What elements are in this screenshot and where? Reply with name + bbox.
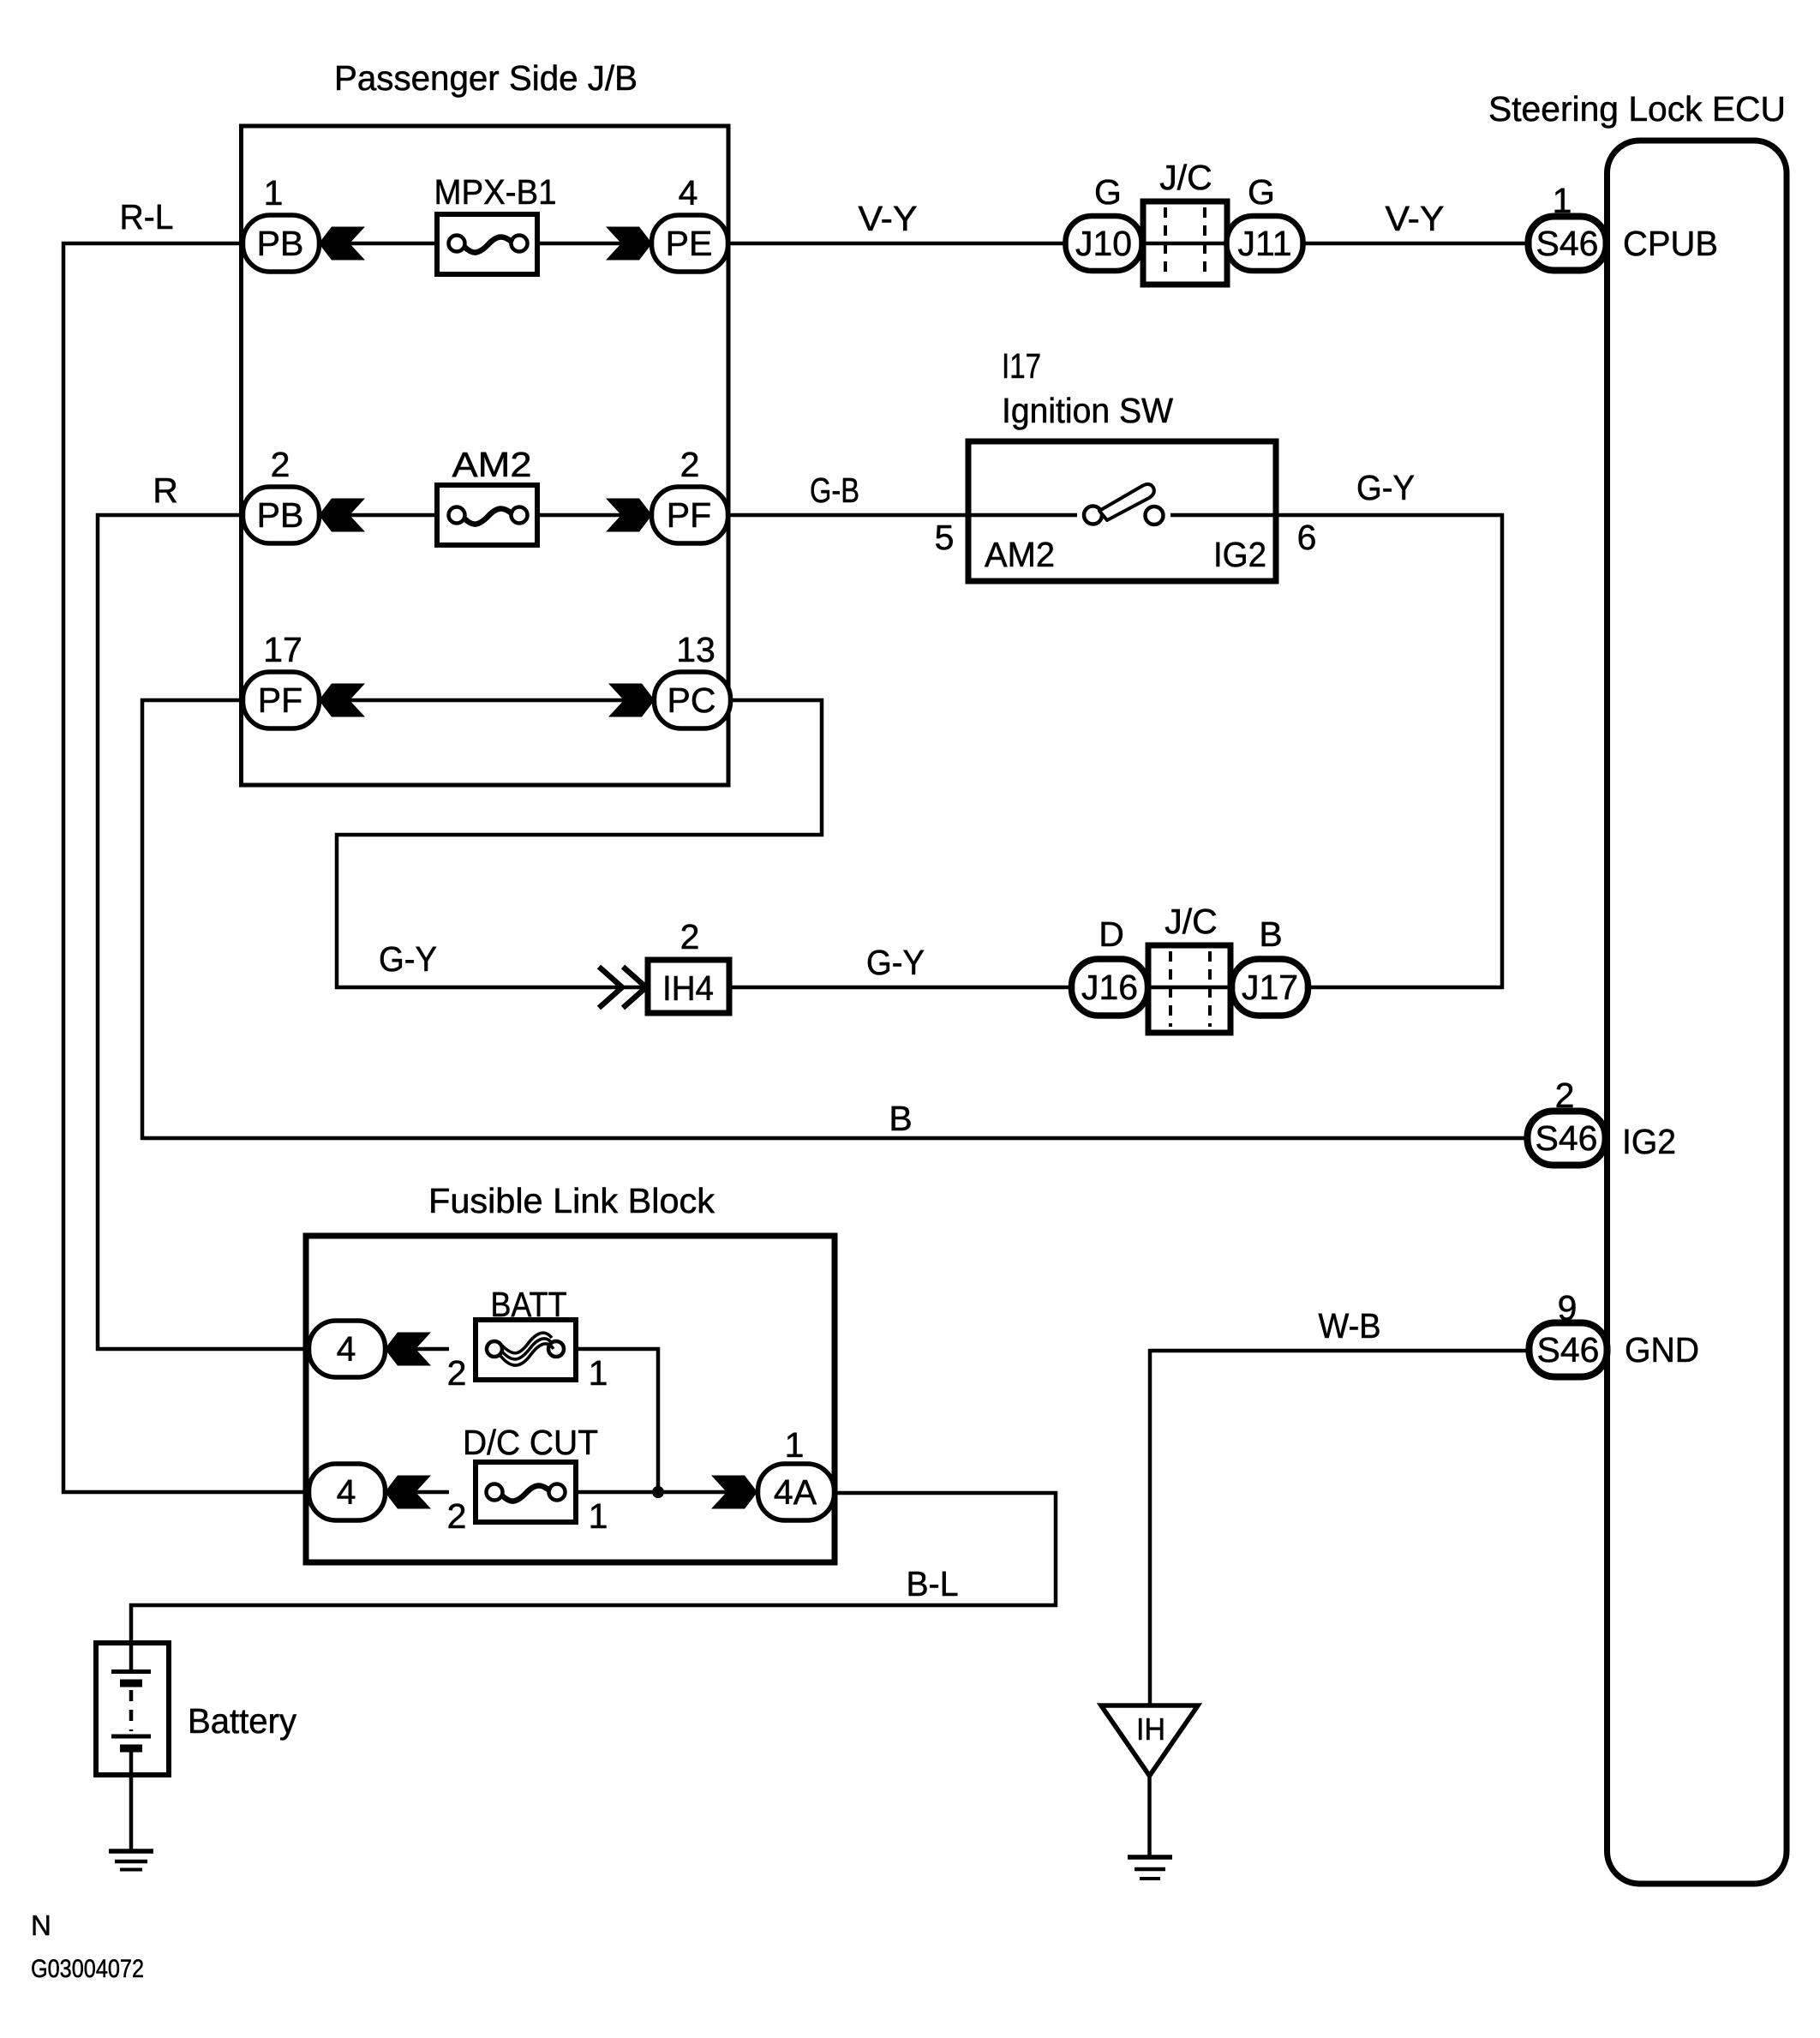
svg-text:J17: J17 bbox=[1242, 968, 1298, 1007]
arrow into BATT pin 4 bbox=[385, 1333, 431, 1366]
svg-text:PF: PF bbox=[667, 495, 711, 535]
wire V-Y: PE pin4 to J10 bbox=[728, 242, 1067, 246]
junction connector J17 bbox=[1232, 959, 1308, 1016]
ECU box: Steering Lock ECU bbox=[1607, 141, 1787, 1884]
svg-text:2: 2 bbox=[447, 1353, 467, 1393]
svg-text:2: 2 bbox=[680, 917, 700, 956]
arrow into PF pin17 bbox=[319, 684, 365, 717]
svg-text:2: 2 bbox=[271, 445, 290, 484]
junction block: Passenger Side J/B bbox=[242, 126, 729, 785]
svg-text:Ignition SW: Ignition SW bbox=[1002, 391, 1173, 430]
arrow into PB pin1 bbox=[319, 227, 365, 261]
wire IG2 side stub bbox=[1170, 513, 1276, 518]
wire B-L: 4A out, down, left to battery bbox=[131, 1493, 1056, 1643]
svg-text:S46: S46 bbox=[1536, 1118, 1598, 1158]
wire G-Y: ignition switch IG2 down to J17 bbox=[1274, 515, 1502, 987]
svg-text:G-B: G-B bbox=[810, 471, 859, 510]
svg-text:W-B: W-B bbox=[1319, 1306, 1381, 1346]
svg-text:J10: J10 bbox=[1075, 224, 1132, 263]
connector PE pin 4 bbox=[652, 215, 728, 272]
connector pin 4 (D/C CUT row) bbox=[309, 1464, 386, 1520]
svg-text:G: G bbox=[1248, 172, 1275, 212]
svg-text:AM2: AM2 bbox=[452, 445, 532, 484]
arrow into PB pin2 bbox=[319, 499, 365, 532]
relay block IH bbox=[1101, 1705, 1198, 1776]
wire row3: PC pin13 to PF pin17 bbox=[320, 698, 655, 703]
wire BATT row: pin4 to BATT fuse to junction bbox=[386, 1347, 449, 1352]
battery bbox=[96, 1643, 169, 1775]
wire AM2 side stub bbox=[968, 513, 1077, 518]
svg-text:PF: PF bbox=[258, 680, 302, 720]
svg-text:4A: 4A bbox=[774, 1472, 817, 1512]
svg-text:1: 1 bbox=[264, 173, 284, 213]
svg-text:4: 4 bbox=[337, 1472, 356, 1512]
switch lever bbox=[1099, 484, 1154, 520]
svg-text:R: R bbox=[153, 471, 178, 510]
svg-text:BATT: BATT bbox=[491, 1285, 567, 1324]
svg-text:Passenger Side J/B: Passenger Side J/B bbox=[334, 58, 638, 98]
ground (IH) bbox=[1128, 1855, 1172, 1860]
connector PB pin 2 bbox=[243, 487, 320, 543]
svg-text:B-L: B-L bbox=[907, 1564, 959, 1603]
wire through J/C (bottom) bbox=[1148, 986, 1231, 990]
ground (battery) bbox=[109, 1849, 153, 1854]
svg-text:D: D bbox=[1099, 914, 1124, 954]
ignition switch I17 box bbox=[968, 441, 1276, 581]
fuse MPX-B1 bbox=[437, 214, 537, 274]
svg-text:IG2: IG2 bbox=[1622, 1122, 1676, 1161]
arrow into PC pin13 bbox=[608, 684, 655, 717]
switch contact IG2 bbox=[1146, 507, 1164, 524]
svg-text:PB: PB bbox=[257, 495, 304, 535]
svg-text:PB: PB bbox=[257, 224, 304, 263]
wire B: PF pin17 left, down, right to S46 pin2 bbox=[142, 700, 1529, 1138]
double chevron into IH4 bbox=[599, 967, 622, 1008]
svg-text:GND: GND bbox=[1625, 1330, 1699, 1370]
arrow into 4A bbox=[711, 1476, 757, 1509]
svg-text:N: N bbox=[31, 1909, 51, 1941]
svg-text:13: 13 bbox=[676, 630, 715, 669]
svg-text:CPUB: CPUB bbox=[1623, 224, 1718, 263]
svg-text:Steering Lock ECU: Steering Lock ECU bbox=[1488, 89, 1786, 129]
svg-text:G: G bbox=[1094, 172, 1122, 212]
connector IH4 bbox=[648, 960, 729, 1013]
connector S46 pin 9 (GND) bbox=[1530, 1323, 1607, 1377]
svg-text:R-L: R-L bbox=[120, 197, 174, 237]
svg-text:4: 4 bbox=[337, 1329, 356, 1369]
svg-text:G-Y: G-Y bbox=[866, 943, 925, 982]
wire W-B: S46 pin9 left, down to IH bbox=[1150, 1351, 1529, 1705]
svg-text:1: 1 bbox=[1553, 181, 1572, 220]
svg-text:J11: J11 bbox=[1237, 224, 1291, 263]
svg-text:I17: I17 bbox=[1002, 346, 1041, 386]
junction block J/C (top) bbox=[1143, 201, 1227, 285]
connector PF pin 2 bbox=[652, 487, 728, 543]
svg-text:J16: J16 bbox=[1081, 968, 1138, 1007]
svg-text:9: 9 bbox=[1558, 1288, 1578, 1328]
wire row1: PB pin1 to PE pin4 through MPX-B1 bbox=[320, 242, 449, 246]
svg-text:1: 1 bbox=[785, 1425, 805, 1465]
junction connector J16 bbox=[1072, 959, 1148, 1016]
svg-text:S46: S46 bbox=[1537, 1330, 1600, 1370]
wire G-Y: IH4 to J16 bbox=[729, 986, 1073, 990]
wire G-Y: PC pin13 out, down, left, down to IH4 bbox=[337, 700, 822, 987]
fusible link block box bbox=[306, 1236, 835, 1562]
junction connector J10 bbox=[1066, 216, 1142, 271]
svg-text:IH: IH bbox=[1136, 1711, 1165, 1747]
svg-text:IG2: IG2 bbox=[1213, 535, 1266, 574]
wire battery to ground bbox=[129, 1775, 134, 1849]
connector PF pin 17 bbox=[243, 672, 320, 728]
switch contact AM2 bbox=[1084, 507, 1102, 524]
connector S46 pin 1 (CPUB) bbox=[1529, 217, 1607, 271]
fuse D/C CUT bbox=[476, 1462, 576, 1522]
svg-text:G03004072: G03004072 bbox=[31, 1955, 144, 1983]
svg-text:J/C: J/C bbox=[1164, 902, 1218, 941]
junction dot bbox=[652, 1486, 664, 1498]
svg-text:V-Y: V-Y bbox=[859, 199, 918, 238]
junction block J/C (bottom) bbox=[1148, 945, 1230, 1033]
svg-text:J/C: J/C bbox=[1159, 158, 1212, 197]
svg-text:IH4: IH4 bbox=[662, 968, 714, 1008]
svg-text:G-Y: G-Y bbox=[1356, 468, 1415, 507]
junction connector J11 bbox=[1227, 216, 1303, 271]
wire R: PB pin2 left, down, to BATT pin 4 bbox=[98, 515, 309, 1349]
svg-text:V-Y: V-Y bbox=[1386, 199, 1445, 238]
svg-text:Battery: Battery bbox=[188, 1701, 296, 1741]
svg-text:B: B bbox=[1259, 914, 1282, 954]
svg-text:2: 2 bbox=[680, 445, 700, 484]
connector PB pin 1 bbox=[243, 215, 320, 272]
wire G-B: PF pin2 to ignition switch AM2 bbox=[728, 513, 970, 518]
svg-text:B: B bbox=[889, 1099, 912, 1138]
wire IH to ground bbox=[1147, 1776, 1152, 1855]
connector PC pin 13 bbox=[655, 672, 731, 728]
connector pin 4 (BATT row) bbox=[309, 1321, 386, 1377]
arrow into PF pin2 bbox=[606, 499, 652, 532]
connector pin 4A bbox=[758, 1464, 835, 1520]
svg-text:1: 1 bbox=[589, 1496, 608, 1536]
connector S46 pin 2 (IG2) bbox=[1528, 1112, 1606, 1166]
svg-text:AM2: AM2 bbox=[985, 535, 1055, 574]
svg-text:PE: PE bbox=[666, 224, 713, 263]
svg-text:5: 5 bbox=[935, 518, 955, 557]
svg-text:Fusible Link Block: Fusible Link Block bbox=[428, 1181, 715, 1220]
svg-text:4: 4 bbox=[679, 173, 698, 213]
svg-text:S46: S46 bbox=[1536, 224, 1599, 263]
wire row2: PB pin2 to PF pin2 through AM2 bbox=[320, 513, 449, 518]
svg-text:D/C CUT: D/C CUT bbox=[463, 1423, 598, 1462]
fusible link BATT bbox=[476, 1320, 576, 1380]
wire V-Y: J11 to S46 pin1 bbox=[1302, 242, 1530, 246]
svg-text:MPX-B1: MPX-B1 bbox=[434, 172, 557, 212]
svg-text:G-Y: G-Y bbox=[379, 939, 437, 979]
svg-text:2: 2 bbox=[447, 1496, 467, 1536]
wire D/C CUT row: pin4 to fuse to 4A bbox=[386, 1490, 449, 1495]
svg-text:1: 1 bbox=[589, 1353, 608, 1393]
svg-text:2: 2 bbox=[1555, 1076, 1575, 1115]
wire through J/C (top) bbox=[1143, 242, 1227, 246]
svg-text:17: 17 bbox=[263, 630, 302, 669]
svg-text:6: 6 bbox=[1297, 518, 1317, 557]
svg-text:PC: PC bbox=[668, 680, 716, 720]
arrow into D/C CUT pin 4 bbox=[385, 1476, 431, 1509]
arrow into PE pin4 bbox=[606, 227, 652, 261]
wire R-L: PB pin 1 left, down, to D/C CUT pin 4 bbox=[63, 243, 308, 1492]
fuse AM2 bbox=[437, 485, 537, 545]
